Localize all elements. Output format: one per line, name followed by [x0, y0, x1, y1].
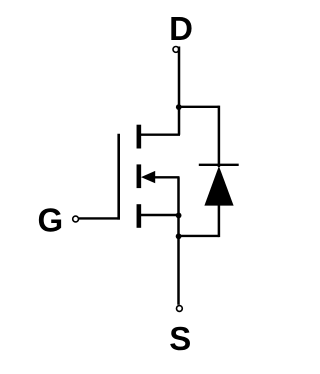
svg-text:G: G	[37, 202, 63, 239]
junction drain node	[176, 104, 182, 110]
mosfet channel segment drain	[137, 125, 142, 149]
mosfet channel segment source	[137, 204, 142, 228]
svg-text:S: S	[169, 320, 191, 357]
mosfet gate electrode line	[117, 134, 120, 220]
wire source horizontal (channel to source vertical)	[141, 214, 180, 216]
wire body horizontal (arrow to source vertical)	[153, 176, 180, 178]
wire drain node to diode cathode branch	[178, 106, 219, 108]
wire source vertical (body/source down to S terminal)	[177, 177, 180, 304]
terminal pin G (open circle)	[73, 216, 79, 222]
wire gate horizontal	[79, 217, 120, 219]
wire diode anode vertical	[218, 205, 221, 238]
diode body (anode triangle pointing up)	[204, 166, 233, 206]
wire drain vertical (D terminal to drain)	[178, 47, 181, 135]
mosfet channel segment body	[137, 164, 142, 188]
wire diode cathode vertical	[218, 106, 221, 167]
wire diode anode to source node	[178, 235, 219, 237]
mosfet body arrow (points into channel)	[141, 171, 155, 183]
wire drain horizontal (channel to drain vertical)	[141, 133, 180, 135]
junction source node lower	[176, 233, 182, 239]
terminal pin D (open circle)	[173, 47, 179, 53]
terminal pin S (open circle)	[177, 306, 183, 312]
svg-text:D: D	[169, 10, 193, 47]
diode cathode bar	[199, 164, 239, 166]
junction source node upper	[176, 213, 182, 219]
